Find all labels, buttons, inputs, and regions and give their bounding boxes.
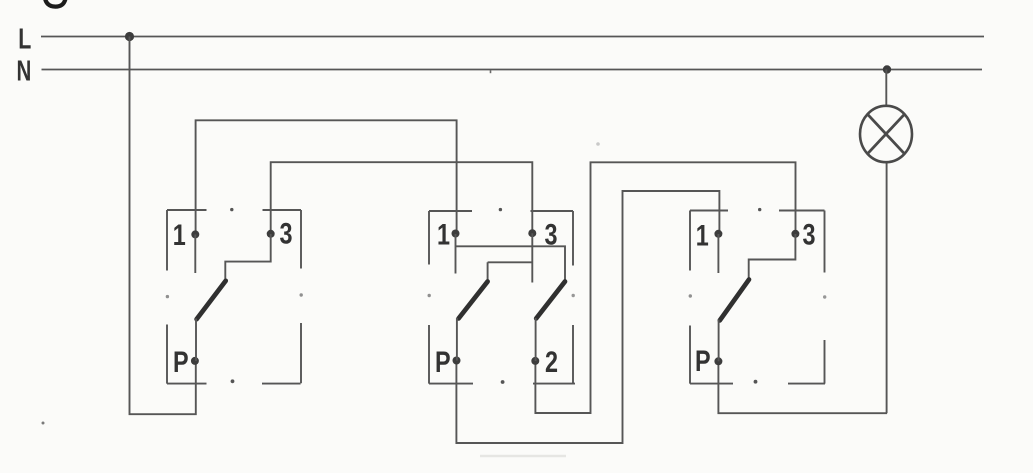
switch S3 terminal 1 [714,230,722,238]
switch S1 terminal 3 [267,230,275,238]
switch S2 terminal 3 [528,229,536,237]
svg-text:P: P [435,345,451,378]
svg-text:1: 1 [437,218,450,251]
wire L feed to S1 P [130,37,196,415]
switch S3 lever [720,280,749,321]
wire N rail [42,69,983,71]
speck bottom left [42,422,45,425]
switch S2 terminal 1 [452,230,460,238]
switch S2 link 3 to left pole [488,262,533,282]
switch S2 contact stub 3 [531,233,533,282]
switch S3 P link [718,320,720,362]
svg-text:P: P [173,345,189,378]
wire S3-P to lamp [718,361,887,413]
wire lamp top [885,70,887,107]
switch S2 terminal P [453,357,461,365]
switch S2 contact stub 1 [455,234,457,274]
wire L rail [41,36,984,38]
switch S3 fixed contact from 3 [749,234,796,280]
svg-text:N: N [17,56,32,87]
wire S1-3 to S2-3 [271,162,533,234]
switch S1 P link [195,319,197,361]
lamp E1 [860,106,912,162]
switch S3 terminal 3 [791,230,799,238]
switch S3 enclosure [689,208,827,384]
svg-text:1: 1 [173,218,186,251]
wire lamp bottom [886,162,888,413]
switch S2 terminal 2 [531,357,539,365]
switch S2 link 1 to right pole [456,246,566,282]
switch S1 fixed contact from 3 [225,234,270,284]
svg-text:3: 3 [803,218,816,251]
speck on N rail [490,70,492,73]
switch S2 lever right [536,282,565,319]
wire S1-1 to S2-1 [196,120,457,234]
switch S1 terminal P [191,357,199,365]
switch S1 lever [197,281,226,319]
svg-text:3: 3 [280,217,293,250]
node N junction [883,65,891,73]
node L junction [125,32,134,41]
svg-text:P: P [695,344,711,377]
faint streak [480,455,566,458]
faint smudge [596,142,600,146]
switch S1 terminal 1 [191,230,199,238]
svg-text:1: 1 [696,219,709,252]
switch S2 lever left [459,282,488,319]
wire S2-P to S3-1 [456,191,719,443]
svg-text:2: 2 [545,345,558,378]
svg-text:L: L [18,24,31,56]
switch S1 enclosure [166,208,303,384]
switch S3 contact stub 1 [717,234,719,273]
switch S2 P link [456,318,458,361]
switch S1 contact stub 1 [194,234,196,273]
switch S3 terminal P [714,357,722,365]
switch S2 link lever to 2 [535,318,537,361]
switch S2 enclosure [428,208,576,384]
wire S2-2 to S3-3 [535,162,795,413]
caption fragment (bottom of letter above crop) [45,0,66,7]
